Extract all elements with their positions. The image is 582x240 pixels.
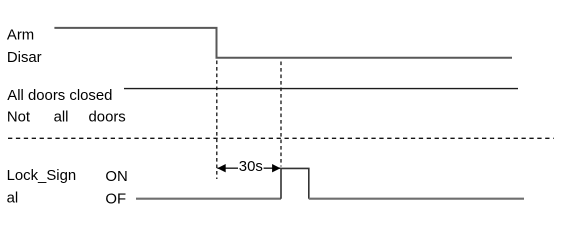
svg-text:doors: doors	[89, 109, 126, 125]
wire 30s arrow right segment	[264, 167, 281, 169]
svg-text:All doors closed: All doors closed	[7, 88, 112, 104]
wire all-doors-closed level	[124, 88, 518, 90]
node t1 dashed marker	[280, 62, 282, 167]
svg-text:Lock_Sign: Lock_Sign	[7, 168, 77, 184]
node t0 dashed marker	[216, 61, 218, 180]
wire arm-disarm signal	[54, 28, 512, 58]
arrowhead left	[217, 164, 225, 172]
wire lock-signal off level left	[136, 198, 281, 200]
wire lock-signal pulse	[281, 168, 309, 198]
svg-text:OF: OF	[105, 191, 126, 207]
svg-text:all: all	[54, 109, 69, 125]
svg-text:Not: Not	[7, 109, 31, 125]
wire dashed separator	[8, 137, 554, 139]
svg-text:30s: 30s	[239, 159, 263, 175]
wire 30s arrow left segment	[217, 167, 238, 169]
wire lock-signal off level right	[309, 198, 524, 200]
svg-text:ON: ON	[105, 169, 127, 185]
arrowhead right	[272, 164, 280, 172]
svg-text:Arm: Arm	[7, 28, 34, 44]
svg-text:al: al	[7, 191, 19, 207]
svg-text:Disar: Disar	[7, 50, 42, 66]
